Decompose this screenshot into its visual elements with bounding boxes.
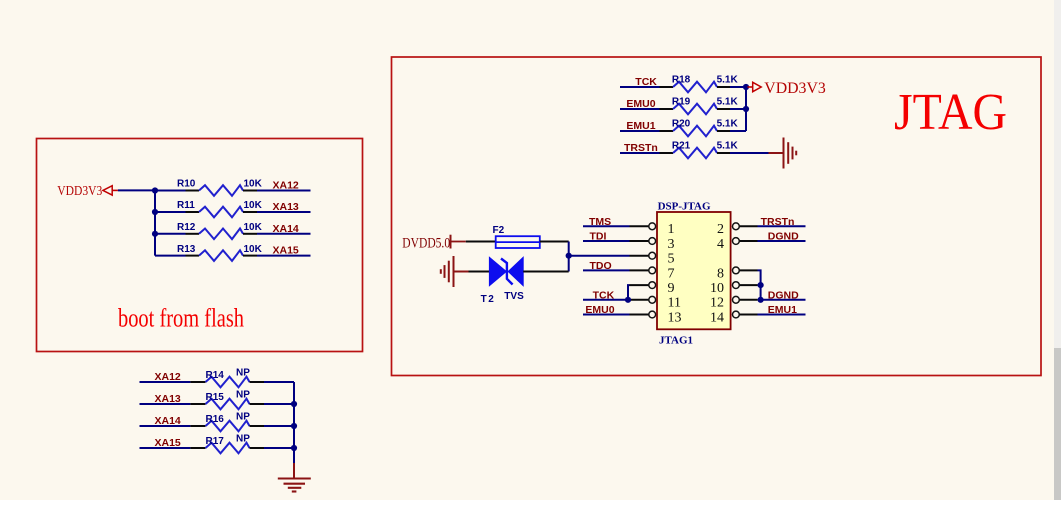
ground stub TVS: [454, 271, 469, 273]
svg-text:DGND: DGND: [768, 290, 799, 302]
junction XA14 row: [291, 423, 297, 429]
svg-text:R10: R10: [177, 179, 196, 190]
R10 right pin: [243, 190, 257, 192]
wire R11 to net XA13: [257, 211, 311, 213]
svg-text:4: 4: [717, 237, 724, 252]
pin circle 3: [649, 238, 656, 245]
svg-text:12: 12: [710, 296, 724, 311]
R10 left pin: [186, 190, 200, 192]
wire VDD3V3 to bus: [118, 189, 155, 191]
pin lead left row 1: [630, 225, 650, 227]
wire net XA14 to R16: [140, 425, 191, 427]
svg-text:XA15: XA15: [155, 437, 181, 449]
svg-text:7: 7: [668, 266, 675, 281]
resistor R12 10K: [199, 229, 243, 240]
R13 left pin: [186, 255, 200, 257]
resistor R10 10K: [199, 185, 243, 196]
pin circle 5: [649, 252, 656, 259]
wire fuse F2 to node: [540, 241, 569, 243]
wire TVS to node: [523, 271, 569, 273]
wire R16 to bus: [264, 425, 294, 427]
wire R18 to bus: [730, 86, 746, 88]
pin circle 4: [733, 238, 740, 245]
wire R20 to bus: [730, 130, 746, 132]
wire DVDD5.0 to fuse F2: [466, 241, 496, 243]
svg-text:10K: 10K: [244, 200, 263, 211]
R11 right pin: [243, 211, 257, 213]
junction XA13 row: [291, 401, 297, 407]
svg-text:R20: R20: [672, 119, 691, 130]
R19 right pin: [717, 108, 730, 110]
R20 right pin: [717, 130, 730, 132]
svg-text:XA14: XA14: [155, 415, 181, 427]
wire vertical fuse node: [568, 242, 570, 272]
svg-text:TRSTn: TRSTn: [761, 216, 795, 228]
svg-text:9: 9: [668, 281, 675, 296]
junction R10 row: [152, 187, 158, 193]
wire net TRSTn: [620, 152, 660, 154]
svg-text:EMU0: EMU0: [585, 304, 614, 316]
fuse F2: [496, 236, 540, 248]
pin lead right row 5: [739, 284, 757, 286]
svg-text:2: 2: [717, 222, 724, 237]
svg-text:5.1K: 5.1K: [717, 141, 739, 152]
pin circle 9: [649, 282, 656, 289]
wire R15 to bus: [264, 403, 294, 405]
resistor R20 5.1K: [673, 126, 717, 137]
ground symbol bottom: [278, 479, 311, 492]
svg-text:NP: NP: [236, 434, 250, 445]
svg-text:F2: F2: [493, 225, 505, 236]
svg-text:XA12: XA12: [273, 180, 299, 192]
pin circle 14: [733, 311, 740, 318]
svg-text:3: 3: [668, 237, 675, 252]
svg-text:TMS: TMS: [589, 216, 611, 228]
svg-text:VDD3V3: VDD3V3: [57, 184, 102, 199]
pin lead right row 6: [739, 299, 757, 301]
wire pin14 to EMU1: [758, 314, 806, 316]
svg-text:10K: 10K: [244, 222, 263, 233]
wire pin9 to TCK: [628, 285, 630, 300]
svg-text:R14: R14: [206, 370, 225, 381]
svg-text:TVS: TVS: [504, 291, 524, 302]
svg-text:XA13: XA13: [155, 393, 181, 405]
pin circle 2: [733, 223, 740, 230]
svg-text:DSP-JTAG: DSP-JTAG: [658, 200, 711, 212]
pin circle 13: [649, 311, 656, 318]
pin circle 1: [649, 223, 656, 230]
svg-text:R16: R16: [206, 414, 225, 425]
pin circle 11: [649, 296, 656, 303]
pin lead right row 7: [739, 314, 757, 316]
R14 right pin: [250, 381, 265, 383]
R15 right pin: [250, 403, 265, 405]
svg-text:5.1K: 5.1K: [717, 119, 739, 130]
R21 right pin: [717, 152, 730, 154]
pin circle 12: [733, 296, 740, 303]
power port VDD3V3 triangle (left): [103, 186, 112, 195]
scrollbar thumb bottom: [1054, 348, 1061, 500]
junction pin10: [758, 282, 764, 288]
wire EMU0 to pin13: [583, 314, 630, 316]
svg-text:EMU1: EMU1: [768, 304, 797, 316]
annotation box: boot from flash: [37, 139, 363, 352]
wire TDO to pin7: [583, 269, 630, 271]
svg-text:XA13: XA13: [273, 201, 299, 213]
pin lead left row 3: [630, 255, 650, 257]
R18 left pin: [660, 86, 674, 88]
wire pin12 to DGND: [761, 299, 806, 301]
resistor R18 5.1K: [673, 82, 717, 93]
power port VDD3V3 triangle (right): [753, 82, 762, 91]
junction pin12: [758, 297, 764, 303]
R16 left pin: [190, 425, 205, 427]
junction R12 row: [152, 231, 158, 237]
svg-text:JTAG1: JTAG1: [659, 335, 693, 347]
wire pin8 bus down: [758, 270, 761, 299]
wire vertical bus bottom group: [293, 382, 295, 463]
svg-text:R13: R13: [177, 244, 196, 255]
R14 left pin: [190, 381, 205, 383]
svg-text:XA12: XA12: [155, 371, 181, 383]
svg-text:5.1K: 5.1K: [717, 75, 739, 86]
wire net XA15 to R17: [140, 447, 191, 449]
wire R19 to bus: [730, 108, 746, 110]
resistor R13 10K: [199, 250, 243, 261]
svg-text:8: 8: [717, 266, 724, 281]
pin lead left row 7: [630, 314, 650, 316]
R21 left pin: [660, 152, 674, 154]
TVS diode T2: [489, 257, 523, 285]
wire TDI to pin3: [583, 240, 630, 242]
R12 right pin: [243, 233, 257, 235]
R17 left pin: [190, 447, 205, 449]
svg-text:R18: R18: [672, 75, 691, 86]
junction XA15 row: [291, 445, 297, 451]
R17 right pin: [250, 447, 265, 449]
svg-text:DGND: DGND: [768, 231, 799, 243]
pin lead right row 1: [739, 225, 757, 227]
svg-text:XA14: XA14: [273, 223, 299, 235]
wire R14 to bus: [264, 381, 294, 383]
svg-text:R21: R21: [672, 141, 691, 152]
svg-text:VDD3V3: VDD3V3: [764, 80, 826, 97]
wire ground to TVS: [469, 271, 490, 273]
resistor R17 NP: [206, 443, 250, 454]
svg-text:NP: NP: [236, 390, 250, 401]
wire bus to R12: [155, 233, 186, 235]
R20 left pin: [660, 130, 674, 132]
scrollbar track top: [1054, 0, 1061, 348]
svg-text:TDI: TDI: [590, 231, 607, 243]
svg-text:R19: R19: [672, 97, 691, 108]
ground symbol right of R21: [784, 138, 797, 169]
pin lead right row 2: [739, 240, 757, 242]
wire net EMU0: [620, 108, 660, 110]
wire vertical bus left box: [154, 191, 156, 256]
pin circle 8: [733, 267, 740, 274]
svg-text:13: 13: [668, 310, 682, 325]
svg-text:EMU0: EMU0: [626, 98, 655, 110]
R16 right pin: [250, 425, 265, 427]
junction R11 row: [152, 209, 158, 215]
wire TMS to pin1: [583, 225, 630, 227]
svg-text:DVDD5.0: DVDD5.0: [402, 236, 450, 252]
svg-text:boot from flash: boot from flash: [118, 303, 244, 332]
svg-text:TRSTn: TRSTn: [624, 142, 658, 154]
R18 right pin: [717, 86, 730, 88]
junction TCK: [625, 297, 631, 303]
pin lead left row 6: [630, 299, 650, 301]
wire node to pin5: [569, 255, 630, 257]
junction pin5 node: [566, 253, 572, 259]
svg-text:EMU1: EMU1: [626, 120, 655, 132]
svg-text:R11: R11: [177, 200, 195, 211]
wire net TCK: [620, 86, 660, 88]
wire net XA12 to R14: [140, 381, 191, 383]
resistor R21 5.1K: [673, 148, 717, 159]
resistor R11 10K: [199, 207, 243, 218]
svg-text:NP: NP: [236, 412, 250, 423]
R15 left pin: [190, 403, 205, 405]
svg-text:NP: NP: [236, 368, 250, 379]
ground symbol left of TVS: [441, 256, 454, 287]
wire bus to R10: [155, 190, 186, 192]
pin lead left row 4: [630, 269, 650, 271]
pin circle 10: [733, 282, 740, 289]
svg-text:JTAG: JTAG: [894, 84, 1007, 141]
R11 left pin: [186, 211, 200, 213]
R19 left pin: [660, 108, 674, 110]
junction R18 row: [743, 84, 749, 90]
wire pin2 to TRSTn: [758, 225, 806, 227]
svg-text:TCK: TCK: [635, 76, 657, 88]
resistor R19 5.1K: [673, 104, 717, 115]
R12 left pin: [186, 233, 200, 235]
svg-text:10K: 10K: [244, 179, 263, 190]
power port stub wire: [112, 189, 118, 191]
pin lead left row 5: [630, 284, 650, 286]
svg-text:R17: R17: [206, 436, 225, 447]
wire R21 to ground: [730, 152, 769, 154]
power port DVDD5.0 bar: [450, 235, 452, 249]
ground stem: [293, 463, 295, 479]
junction R19 row: [743, 106, 749, 112]
wire bus to R11: [155, 211, 186, 213]
wire vertical bus pullups: [745, 87, 747, 131]
wire R12 to net XA14: [257, 233, 311, 235]
pin lead right row 4: [739, 269, 757, 271]
annotation box: JTAG: [392, 57, 1042, 376]
svg-text:R15: R15: [206, 392, 225, 403]
svg-text:10K: 10K: [244, 244, 263, 255]
svg-text:5.1K: 5.1K: [717, 97, 739, 108]
svg-text:R12: R12: [177, 222, 196, 233]
resistor R14 NP: [206, 377, 250, 388]
svg-text:T2: T2: [481, 294, 496, 305]
svg-text:5: 5: [668, 252, 675, 267]
svg-text:11: 11: [668, 296, 681, 311]
resistor R16 NP: [206, 421, 250, 432]
wire R10 to net XA12: [257, 190, 311, 192]
svg-text:TCK: TCK: [593, 290, 615, 302]
R13 right pin: [243, 255, 257, 257]
svg-text:14: 14: [710, 310, 724, 325]
svg-text:10: 10: [710, 281, 724, 296]
svg-text:TDO: TDO: [590, 260, 612, 272]
svg-text:1: 1: [668, 222, 675, 237]
pin lead left row 2: [630, 240, 650, 242]
pin circle 7: [649, 267, 656, 274]
wire bus to R13: [155, 255, 186, 257]
ground stub R21: [769, 152, 784, 154]
wire R17 to bus: [264, 447, 294, 449]
svg-text:XA15: XA15: [273, 245, 299, 257]
connector JTAG1 body: [657, 212, 731, 329]
wire TCK to pin11: [583, 299, 630, 301]
wire pin4 to DGND: [758, 240, 806, 242]
power port stub: [748, 86, 753, 88]
power stub DVDD5.0: [451, 241, 466, 243]
resistor R15 NP: [206, 399, 250, 410]
wire net XA13 to R15: [140, 403, 191, 405]
wire net EMU1: [620, 130, 660, 132]
wire R13 to net XA15: [257, 255, 311, 257]
